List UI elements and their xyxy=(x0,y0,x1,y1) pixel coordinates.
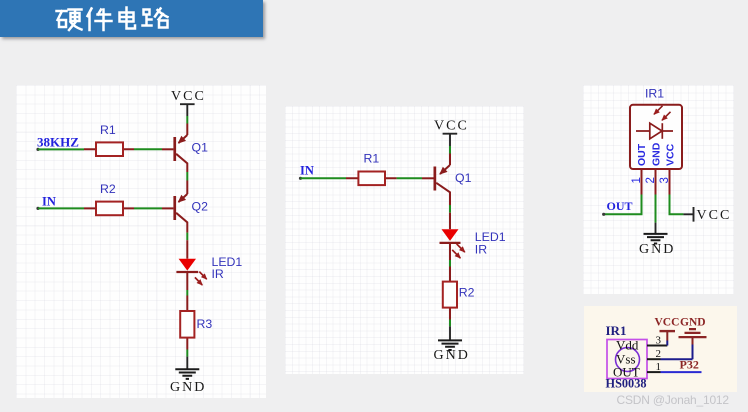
svg-text:R3: R3 xyxy=(197,317,213,331)
svg-text:IR1: IR1 xyxy=(605,323,626,338)
power port VCC xyxy=(434,119,469,147)
wire IN to R1 xyxy=(301,177,347,179)
wire 38KHZ to R1 xyxy=(38,148,84,150)
wire VCC to pin3 xyxy=(666,340,668,345)
resistor R2 xyxy=(84,182,134,215)
wire GND to pin2 xyxy=(660,344,692,359)
power port VCC xyxy=(683,207,731,223)
char 硬 xyxy=(57,11,67,27)
svg-text:OUT: OUT xyxy=(636,143,648,166)
svg-text:GND: GND xyxy=(170,380,206,395)
svg-text:IR1: IR1 xyxy=(645,87,664,101)
wire pin2 to ground xyxy=(655,195,657,223)
wire R2 to ground xyxy=(449,320,451,327)
pin 2 xyxy=(647,358,661,360)
svg-text:IR: IR xyxy=(212,267,224,281)
svg-text:IR: IR xyxy=(475,243,487,257)
svg-text:Q1: Q1 xyxy=(192,141,209,155)
wire pin1 to OUT xyxy=(604,195,642,215)
component IR1 receiver box xyxy=(630,87,682,195)
char 路 xyxy=(143,10,152,26)
svg-text:GND: GND xyxy=(680,316,706,328)
svg-text:3: 3 xyxy=(659,177,671,183)
svg-text:HS0038: HS0038 xyxy=(605,376,646,390)
power port VCC xyxy=(171,89,206,116)
LED LED1 / IR xyxy=(440,213,506,260)
resistor R2 xyxy=(443,267,475,320)
pin 1 xyxy=(647,371,661,373)
svg-text:R2: R2 xyxy=(100,182,116,196)
svg-text:Q1: Q1 xyxy=(455,171,472,185)
svg-text:1: 1 xyxy=(655,361,661,373)
wire R2 to Q2 base xyxy=(134,207,162,209)
char 件 xyxy=(88,9,112,31)
pin 3 xyxy=(647,344,667,346)
svg-text:2: 2 xyxy=(645,177,657,183)
pin 1 xyxy=(641,169,643,195)
resistor R1 xyxy=(84,123,134,156)
power port VCC xyxy=(654,316,679,340)
resistor R3 xyxy=(180,296,212,350)
wire LED1 to R3 xyxy=(186,290,188,296)
svg-text:VCC: VCC xyxy=(665,143,677,166)
wire Q1 collector to LED1 xyxy=(449,205,451,213)
watermark xyxy=(617,393,729,407)
component IR1 HS0038 xyxy=(605,323,667,391)
svg-text:1: 1 xyxy=(631,177,643,183)
port IN xyxy=(36,195,56,210)
wire LED1 to R2 xyxy=(449,260,451,267)
wire R1 to Q1 base xyxy=(397,177,422,179)
resistor R1 xyxy=(346,152,397,186)
port IN xyxy=(299,164,314,180)
pin 2 xyxy=(655,169,657,195)
svg-text:Vdd: Vdd xyxy=(616,337,639,352)
transistor Q1 xyxy=(422,154,472,206)
wire VCC to Q1 emitter xyxy=(186,116,188,124)
port OUT xyxy=(602,199,632,216)
svg-text:IN: IN xyxy=(300,164,314,178)
wire pin1 P32 xyxy=(660,371,701,373)
svg-text:VCC: VCC xyxy=(697,208,732,223)
svg-text:IN: IN xyxy=(42,195,56,209)
svg-text:VCC: VCC xyxy=(654,316,679,328)
svg-text:GND: GND xyxy=(651,142,663,166)
svg-text:GND: GND xyxy=(639,242,675,257)
wire R1 to Q1 base xyxy=(134,148,162,150)
char 电 xyxy=(120,8,136,29)
svg-text:Q2: Q2 xyxy=(192,200,209,214)
svg-text:VCC: VCC xyxy=(434,119,469,134)
wire pin3 to VCC xyxy=(670,195,684,215)
transistor Q2 xyxy=(162,181,208,233)
transistor Q1 xyxy=(162,124,208,173)
svg-text:GND: GND xyxy=(434,348,470,363)
wire IN to R2 xyxy=(38,207,84,209)
svg-text:3: 3 xyxy=(655,334,661,346)
wire R3 to ground xyxy=(186,350,188,357)
LED LED1 / IR xyxy=(176,240,242,290)
ground xyxy=(434,326,470,363)
svg-text:VCC: VCC xyxy=(171,89,206,104)
pin 3 xyxy=(669,169,671,195)
svg-text:R2: R2 xyxy=(459,286,475,300)
svg-text:P32: P32 xyxy=(679,357,698,371)
wire Q1 collector to Q2 emitter xyxy=(186,172,188,181)
wire VCC to Q1 xyxy=(449,146,451,154)
ground xyxy=(639,223,675,257)
title banner 硬件电路 xyxy=(0,0,263,37)
ground xyxy=(170,357,206,395)
svg-text:2: 2 xyxy=(655,348,661,360)
port 38KHZ xyxy=(36,135,79,151)
svg-text:R1: R1 xyxy=(100,123,116,137)
power port GND xyxy=(678,316,706,344)
svg-text:OUT: OUT xyxy=(607,199,633,213)
wire Q2 collector to LED1 xyxy=(186,233,188,241)
svg-text:38KHZ: 38KHZ xyxy=(37,135,79,150)
svg-text:R1: R1 xyxy=(364,152,380,166)
